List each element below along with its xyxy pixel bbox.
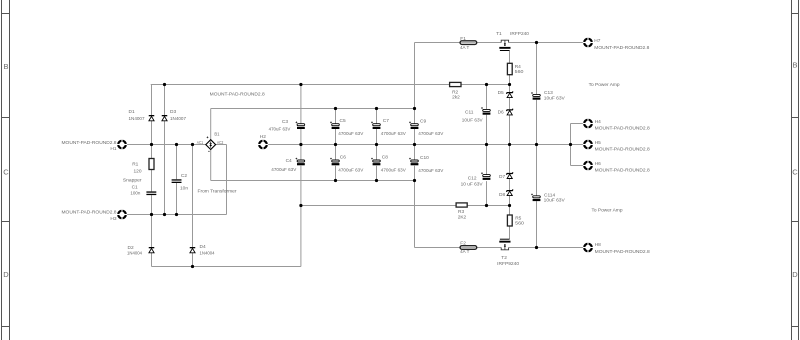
- svg-text:MOUNT-PAD-ROUND2.8: MOUNT-PAD-ROUND2.8: [62, 209, 117, 215]
- svg-text:H2: H2: [260, 134, 266, 140]
- junction at (300.9,84.5): [299, 83, 302, 86]
- svg-text:H3: H3: [110, 216, 116, 222]
- svg-text:T1: T1: [496, 31, 502, 37]
- mount pad H5: [583, 139, 593, 149]
- svg-text:B1: B1: [214, 132, 220, 137]
- svg-text:MOUNT-PAD-ROUND2.8: MOUNT-PAD-ROUND2.8: [595, 249, 650, 255]
- svg-text:D2: D2: [128, 245, 134, 251]
- junction at (151.5,214.5): [150, 213, 153, 216]
- svg-text:1N4007: 1N4007: [129, 116, 145, 122]
- svg-text:4700uF 63V: 4700uF 63V: [418, 131, 444, 137]
- wire C7/C8 column: [376, 109, 378, 124]
- junction at (509.5,205.5): [508, 204, 511, 207]
- junction at (335.5,180.5): [334, 179, 337, 182]
- svg-text:4700uF 63V: 4700uF 63V: [338, 168, 364, 174]
- svg-text:D: D: [792, 270, 798, 279]
- junction at (486.5,205.5): [485, 204, 488, 207]
- svg-text:IRFP240: IRFP240: [510, 31, 529, 37]
- svg-text:H4: H4: [595, 119, 601, 125]
- wire F2 to T2 to H8: [415, 247, 461, 249]
- wire H4/H6 branch: [570, 124, 572, 166]
- wire AC2 column: [226, 145, 228, 215]
- wire D1 column: [151, 85, 153, 116]
- mount pad H7: [583, 37, 593, 47]
- wire H6 stub: [571, 165, 589, 167]
- capacitor C1 100n: [146, 191, 156, 195]
- svg-text:To Power Amp: To Power Amp: [589, 82, 620, 88]
- svg-text:2k2: 2k2: [452, 95, 460, 101]
- svg-text:C1: C1: [132, 184, 138, 190]
- svg-text:C: C: [792, 168, 798, 177]
- wire B1 AC2 stub: [216, 144, 227, 146]
- svg-text:MOUNT-PAD-ROUND2.8: MOUNT-PAD-ROUND2.8: [595, 126, 650, 132]
- junction at (300.9,205.5): [299, 204, 302, 207]
- svg-text:2K2: 2K2: [458, 215, 467, 221]
- capacitor C8 4700uF 63V: [371, 158, 380, 166]
- svg-text:D6: D6: [498, 109, 504, 115]
- svg-text:MOUNT-PAD-ROUND2.8: MOUNT-PAD-ROUND2.8: [62, 140, 117, 146]
- wire D4 column: [192, 145, 194, 248]
- svg-text:C4: C4: [286, 158, 292, 164]
- junction at (164.5,84.5): [163, 83, 166, 86]
- junction at (151.5,144.5): [150, 143, 153, 146]
- junction at (536.5,42.5): [535, 41, 538, 44]
- svg-text:H8: H8: [595, 242, 601, 248]
- capacitor C3 470uF 63V: [296, 121, 305, 129]
- wire C5/C6 column: [335, 109, 337, 124]
- svg-text:C11: C11: [465, 109, 474, 115]
- wire C2 column: [176, 145, 178, 180]
- svg-text:10 uF 63V: 10 uF 63V: [461, 182, 484, 188]
- resistor R5 560: [507, 215, 512, 226]
- svg-text:H7: H7: [594, 38, 600, 44]
- svg-text:C8: C8: [382, 155, 388, 161]
- svg-text:C: C: [3, 168, 9, 177]
- svg-text:470uF 63V: 470uF 63V: [269, 127, 292, 133]
- fuse F2 4A T: [460, 246, 477, 250]
- wire C9/C10/F1/F2 column: [414, 43, 416, 124]
- svg-text:10uF 63V: 10uF 63V: [544, 197, 566, 203]
- bridge rectifier B1: [206, 136, 216, 151]
- svg-text:MOUNT-PAD-ROUND2.8: MOUNT-PAD-ROUND2.8: [595, 168, 650, 174]
- svg-text:560: 560: [515, 221, 524, 227]
- capacitor C9 4700uF 63V: [409, 121, 418, 129]
- wire gate-: [301, 205, 456, 207]
- diode D3 1N4007: [162, 115, 168, 121]
- capacitor C4 4700uF 63V: [296, 158, 305, 166]
- wire GND rail H2 to H5: [263, 144, 588, 146]
- capacitor C12 10 uF 63V: [481, 172, 490, 180]
- svg-text:100n: 100n: [130, 191, 140, 197]
- transistor T2 IRFP9240 (P-MOSFET): [499, 239, 510, 250]
- junction at (300.9,144.5): [299, 143, 302, 146]
- wire C1 column: [151, 170, 153, 192]
- svg-text:4700uF 63V: 4700uF 63V: [381, 168, 407, 174]
- svg-text:IRFP9240: IRFP9240: [497, 261, 519, 267]
- mount pad H1: [117, 139, 127, 149]
- svg-text:4A T: 4A T: [460, 45, 469, 51]
- svg-text:C10: C10: [420, 155, 429, 161]
- svg-text:MOUNT-PAD-ROUND2.8: MOUNT-PAD-ROUND2.8: [594, 45, 649, 51]
- svg-text:1N4004: 1N4004: [200, 251, 215, 257]
- junction at (536.5,144.5): [535, 143, 538, 146]
- capacitor C5 4700uF 63V: [330, 121, 339, 129]
- svg-text:C5: C5: [340, 118, 346, 124]
- svg-text:4700uF 63V: 4700uF 63V: [418, 168, 444, 174]
- svg-text:F2: F2: [460, 241, 466, 247]
- svg-text:To Power Amp: To Power Amp: [592, 207, 623, 213]
- resistor R4 560: [507, 63, 512, 74]
- svg-text:D7: D7: [499, 174, 505, 180]
- junction at (192.5,266.5): [191, 265, 194, 268]
- svg-text:C13: C13: [544, 90, 553, 96]
- capacitor C13 10uF 63V: [531, 92, 540, 100]
- svg-text:10n: 10n: [180, 186, 188, 192]
- wire H3 to AC2: [122, 214, 227, 216]
- svg-text:R1: R1: [132, 162, 138, 168]
- svg-text:C7: C7: [383, 118, 389, 124]
- svg-text:D5: D5: [498, 90, 504, 96]
- svg-text:T2: T2: [501, 255, 507, 261]
- junction at (176.5,144.5): [175, 143, 178, 146]
- wire D2 column: [151, 215, 153, 248]
- wire B1- rail: [211, 180, 415, 182]
- wire D2/D4 bottom rail: [152, 266, 301, 268]
- svg-text:Snapper: Snapper: [123, 178, 142, 184]
- svg-text:B: B: [3, 62, 8, 71]
- svg-text:H5: H5: [595, 140, 601, 146]
- junction at (376.5,144.5): [375, 143, 378, 146]
- wire C3/C4 column: [300, 85, 302, 124]
- capacitor C7 4700uF 63V: [371, 121, 380, 129]
- svg-text:4700uF 63V: 4700uF 63V: [338, 131, 364, 137]
- capacitor C6 4700uF 63V: [330, 158, 339, 166]
- junction at (414.5,108.5): [413, 107, 416, 110]
- mount pad H4: [583, 118, 593, 128]
- wire B1 top pin: [210, 109, 212, 140]
- svg-text:H6: H6: [595, 161, 601, 167]
- junction at (335.5,108.5): [334, 107, 337, 110]
- svg-text:D8: D8: [499, 192, 505, 198]
- junction at (536.5,247.5): [535, 246, 538, 249]
- svg-text:1N4004: 1N4004: [127, 251, 142, 257]
- resistor R1 120: [149, 159, 154, 170]
- junction at (164.5,214.5): [163, 213, 166, 216]
- wire H4 stub: [571, 123, 589, 125]
- svg-text:F1: F1: [460, 36, 466, 42]
- zener D7: [506, 172, 513, 178]
- svg-text:10UF 63V: 10UF 63V: [462, 118, 484, 124]
- mount pad H2: [258, 139, 268, 149]
- fuse F1 4A T: [460, 41, 477, 45]
- svg-text:D4: D4: [200, 244, 206, 250]
- svg-text:MOUNT-PAD-ROUND2.8: MOUNT-PAD-ROUND2.8: [210, 92, 265, 98]
- zener D8: [506, 189, 513, 195]
- mount pad H8: [583, 242, 593, 252]
- capacitor C10 4700uF 63V: [409, 158, 418, 166]
- resistor R3 2K2: [456, 203, 467, 207]
- diode D4 1N4004: [190, 247, 196, 253]
- svg-text:D3: D3: [170, 109, 176, 115]
- junction at (376.5,180.5): [375, 179, 378, 182]
- svg-text:B: B: [792, 61, 797, 70]
- zener D6: [506, 109, 513, 115]
- svg-text:C9: C9: [420, 119, 426, 125]
- svg-text:D: D: [3, 270, 9, 279]
- wire gate+ rail: [151, 84, 450, 86]
- junction at (486.5,84.5): [485, 83, 488, 86]
- junction at (486.5,144.5): [485, 143, 488, 146]
- resistor R2 2k2: [450, 82, 461, 86]
- capacitor C2 10n: [172, 179, 182, 183]
- wire C11/C12 column: [486, 85, 488, 110]
- svg-text:R3: R3: [458, 209, 464, 215]
- wire top +raw to F1/T1/H7: [415, 42, 461, 44]
- wire B1 bottom pin: [210, 150, 212, 181]
- capacitor C11 10UF 63V: [481, 107, 490, 115]
- transistor T1 IRFP240 (N-MOSFET): [499, 40, 510, 50]
- svg-text:MOUNT-PAD-ROUND2.8: MOUNT-PAD-ROUND2.8: [595, 147, 650, 153]
- wire C13/C114 column: [536, 43, 538, 95]
- wire H1 to B1 AC1: [122, 144, 206, 146]
- svg-text:4700uF 63V: 4700uF 63V: [381, 131, 407, 137]
- mount pad H6: [583, 160, 593, 170]
- zener D5: [506, 91, 513, 97]
- junction at (192.5,144.5): [191, 143, 194, 146]
- svg-text:AC2: AC2: [217, 140, 224, 145]
- capacitor C114 10uF 63V: [531, 194, 540, 202]
- svg-text:AC1: AC1: [197, 140, 204, 145]
- wire R4/D5/D6/D7/D8/R5 column: [509, 51, 511, 64]
- junction at (414.5,144.5): [413, 143, 416, 146]
- wire D3 column: [164, 85, 166, 116]
- svg-text:H1: H1: [110, 146, 116, 152]
- svg-text:C12: C12: [468, 176, 477, 182]
- svg-text:C3: C3: [282, 119, 288, 125]
- svg-text:4700uF 63V: 4700uF 63V: [271, 167, 297, 173]
- wire B1+ rail: [211, 108, 415, 110]
- svg-text:4A T: 4A T: [460, 249, 469, 255]
- svg-text:C6: C6: [340, 154, 346, 160]
- svg-text:1N4007: 1N4007: [170, 116, 186, 122]
- junction at (376.5,108.5): [375, 107, 378, 110]
- svg-text:From Transformer: From Transformer: [198, 189, 237, 195]
- svg-text:120: 120: [134, 168, 142, 174]
- junction at (509.5,84.5): [508, 83, 511, 86]
- junction at (570.5,144.5): [569, 143, 572, 146]
- junction at (335.5,144.5): [334, 143, 337, 146]
- svg-text:560: 560: [515, 69, 524, 75]
- mount pad H3: [117, 209, 127, 219]
- junction at (509.5,144.5): [508, 143, 511, 146]
- junction at (176.5,214.5): [175, 213, 178, 216]
- svg-text:10uF 63V: 10uF 63V: [544, 96, 566, 102]
- diode D2 1N4004: [149, 247, 155, 253]
- junction at (414.5,180.5): [413, 179, 416, 182]
- svg-text:D1: D1: [129, 109, 135, 115]
- svg-text:C2: C2: [181, 173, 187, 179]
- diode D1 1N4007: [149, 115, 155, 121]
